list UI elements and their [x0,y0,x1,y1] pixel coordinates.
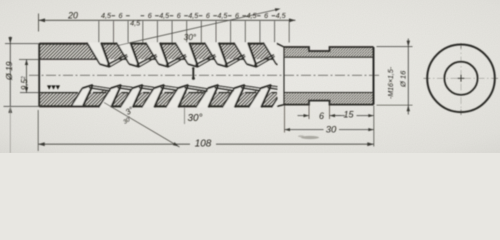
svg-text:30: 30 [326,125,337,136]
ext tick 9,5 top [19,59,39,61]
tooth wedge X7 (bottom wall) [253,89,263,92]
end view outer circle [427,45,495,113]
chain extension lines down to flutes [99,21,289,43]
svg-text:4,5: 4,5 [159,11,170,20]
shank bore line top [284,56,374,58]
ext tick top-left dia19 [5,43,39,45]
dim line 30 [285,129,374,131]
svg-text:15: 15 [343,110,354,120]
flute edges T2 (top wall) [116,43,129,64]
surface finish marks (three solid triangles) [47,85,51,89]
flute edges B1 (bottom wall) [72,88,83,105]
ext tick 9,5 bottom [20,92,39,94]
chain hyphen separators [112,15,276,17]
arrowhead bottom leader [173,142,179,146]
end view center cross [458,75,465,82]
bottom wall outer edge [39,105,98,107]
wall thickness mark on axis [192,68,194,79]
flute edges B4 (bottom wall) [142,88,154,107]
arrow 15 right [368,114,374,117]
flute channel F2 (top wall) [116,43,139,67]
centerline of part axis [29,74,380,76]
ext line bottom right of shank [377,104,413,106]
svg-text:4,5: 4,5 [217,11,228,20]
end view horizontal centerline [424,77,499,79]
svg-text:4,5: 4,5 [276,11,287,20]
flute edges B3 (bottom wall) [120,88,132,107]
flute channel G4 (bottom wall) [142,85,165,108]
svg-text:6: 6 [235,11,239,20]
leader to 108 line [104,103,180,148]
centerline stubs outside circle [424,43,499,115]
flute channel F6 (top wall) [234,43,257,67]
body left end face [38,44,40,107]
flute channel F1 (top wall) [87,43,110,67]
ext line top right of shank [377,46,413,48]
tooth wedge X5 (bottom wall) [197,89,208,92]
arrow down 9,5 [25,87,28,93]
arrow 108 left [38,142,45,146]
top dimension chain line [39,19,296,21]
svg-text:6: 6 [264,11,268,20]
dim line 6 [298,115,346,117]
svg-text:4,5: 4,5 [247,11,258,20]
arrow 30 left [285,128,291,131]
shank bottom wall hatching [284,93,374,105]
flute channel G6 (bottom wall) [196,85,219,108]
dim line 15 [333,115,374,117]
tooth wedge X1 (bottom wall) [101,89,112,92]
flute edges T3 (top wall) [146,43,159,64]
svg-text:6: 6 [119,11,123,20]
svg-text:4,5: 4,5 [101,11,112,20]
flute channel F3 (top wall) [146,43,169,67]
faint page line below [9,106,11,153]
chamfer top body-to-shank [277,44,284,47]
ext line right long [373,106,375,147]
flute edges B7 (bottom wall) [222,88,234,107]
flute channel G3 (bottom wall) [120,85,143,108]
svg-text:30°: 30° [187,113,202,124]
ext line body left for 108 [37,110,39,151]
dim line 108 [38,143,374,145]
arrow up-to-tick dia19 bottom [8,106,12,113]
tooth wedge X6 (bottom wall) [227,89,237,92]
shank top profile with groove [284,47,374,51]
flute channel G1 (bottom wall) [72,85,93,106]
flute channel F7 (top wall) [263,43,286,67]
flute edges B8 (bottom wall) [249,88,261,107]
shank bottom profile with groove [284,101,374,105]
tooth wedge X2 (bottom wall) [130,89,135,92]
ext tick bottom-left dia19 [4,105,42,107]
svg-text:-M16×1,5-: -M16×1,5- [388,66,395,99]
arrow bottom outside [407,105,410,111]
svg-text:4,5: 4,5 [130,19,141,28]
shank bore line bottom [284,92,374,94]
shoulder line at shank left [283,47,285,105]
arrow right end of chain [289,18,296,22]
flute edges T4 (top wall) [175,43,188,64]
shank top wall hatching [284,47,374,57]
tooth wedge X9 (bottom wall) [303,89,314,92]
ext line groove right [329,103,331,119]
fluted body: bottom wall hatched band [39,93,277,107]
flute channel G2 (bottom wall) [99,85,122,108]
fluted body: top wall hatched band [39,44,277,60]
end view vertical centerline [460,43,462,115]
bottom wall bore line [39,92,78,94]
faint smudge [301,136,319,139]
svg-text:108: 108 [195,139,212,150]
leader line for flute angle (top) [118,9,279,46]
flute edges T5 (top wall) [205,43,218,64]
svg-text:6: 6 [148,11,152,20]
paper background [0,0,500,153]
arrow top outside [407,41,410,47]
shank right end face [373,47,375,105]
flute edges B6 (bottom wall) [196,88,208,107]
flute edges T1 (top wall) [87,43,100,64]
extension from body left edge up to chain [38,14,40,32]
flute channel G9 (bottom wall) [272,85,295,108]
arrow up 9,5 [25,60,28,66]
svg-text:Ø 19: Ø 19 [4,61,14,81]
arrow 30 right [368,128,374,131]
svg-text:6: 6 [206,11,210,20]
svg-text:20: 20 [67,11,78,21]
flute channel G5 (bottom wall) [166,85,189,108]
flute edges T7 (top wall) [263,43,276,64]
vertical ref for 30deg angle [184,108,186,125]
flute channel F4 (top wall) [175,43,198,67]
svg-text:6: 6 [319,111,324,121]
thread dimension line [407,47,409,106]
tooth wedge X8 (bottom wall) [280,89,286,92]
end view inner bore circle [444,62,477,95]
top wall outer edge [39,43,87,45]
tooth wedge X4 (bottom wall) [173,89,180,92]
arrowhead top leader [275,8,281,11]
flute edges B5 (bottom wall) [166,88,178,107]
chamfer bottom body-to-shank [277,105,284,107]
top wall bore line [39,58,98,60]
svg-text:30°: 30° [184,33,197,42]
svg-text:Ø 16: Ø 16 [399,70,408,88]
flute edges T6 (top wall) [234,43,247,64]
9,5 dimension line [26,60,28,93]
arrow left end of chain [39,18,46,22]
svg-text:6: 6 [177,11,181,20]
ext line shank left for 30 [284,106,286,133]
flute channel G7 (bottom wall) [222,85,245,108]
flute edges B2 (bottom wall) [99,88,111,107]
arrow 6 right [330,114,336,117]
arrow 6 left [304,114,310,117]
flute edges B9 (bottom wall) [272,88,284,107]
svg-text:4,5: 4,5 [188,11,199,20]
flute channel F5 (top wall) [205,43,228,67]
arrow down-to-tick dia19 top [8,37,12,44]
dia 19 dimension line [9,44,11,107]
arrow 108 right [367,142,374,146]
ext line groove left [308,103,310,119]
flute channel G8 (bottom wall) [249,85,272,108]
